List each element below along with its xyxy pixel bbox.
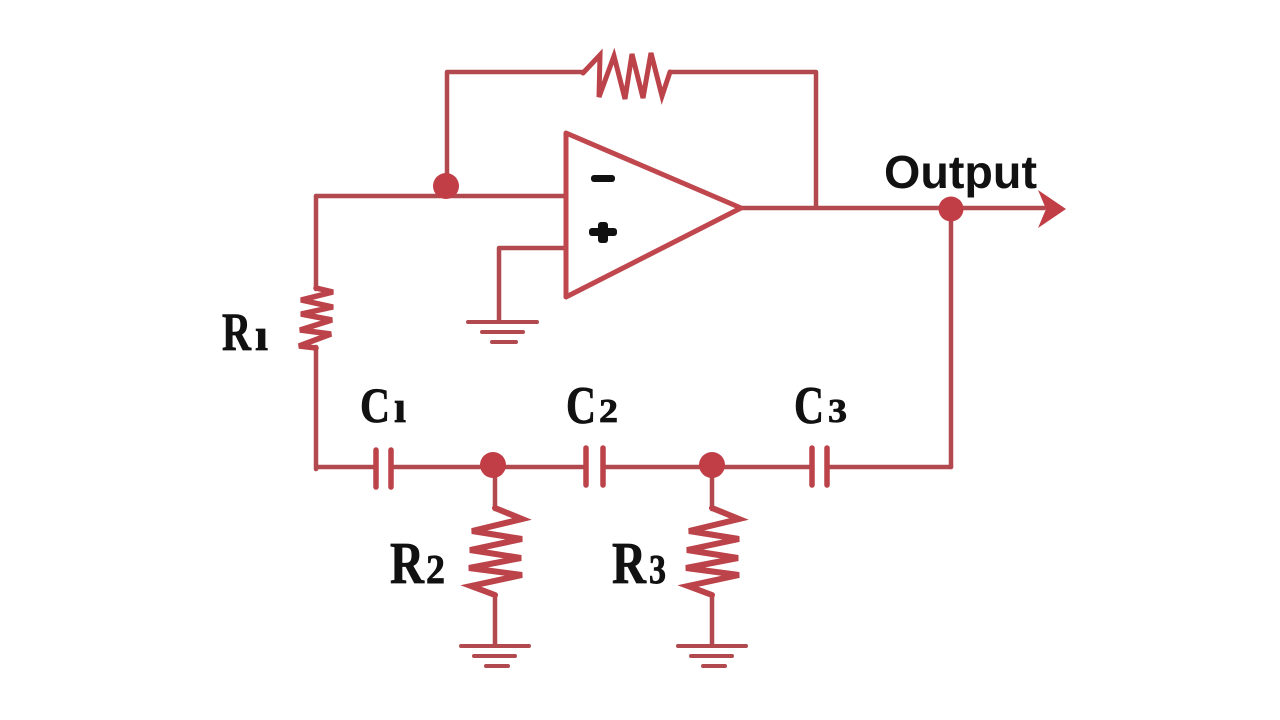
svg-text:ı: ı	[255, 309, 268, 360]
svg-text:R: R	[612, 530, 647, 596]
svg-text:2: 2	[426, 546, 445, 592]
capacitor C1	[376, 450, 391, 487]
label R1	[222, 302, 268, 362]
ground (R2)	[461, 646, 529, 666]
svg-text:3: 3	[649, 546, 666, 592]
node junction (C1-R2)	[480, 452, 506, 478]
wire bottom rail seg3	[604, 465, 810, 470]
wire R1 top stub	[314, 196, 319, 289]
wire output vertical	[949, 209, 954, 467]
node junction (output)	[939, 197, 964, 222]
svg-text:R: R	[390, 530, 425, 596]
resistor feedback (top)	[583, 53, 670, 99]
node junction (feedback / inverting input)	[433, 173, 459, 199]
node junction (C2-R3)	[699, 452, 725, 478]
svg-text:C: C	[360, 377, 390, 433]
capacitor C2	[586, 448, 603, 485]
svg-text:Output: Output	[884, 146, 1037, 198]
resistor R3	[686, 508, 739, 595]
output arrowhead	[1038, 190, 1066, 228]
wire bottom rail seg2	[392, 465, 585, 470]
wire R2 bottom stub	[493, 595, 498, 645]
wire non-inverting input	[499, 248, 566, 321]
wire inverting input	[316, 194, 566, 199]
resistor R2	[469, 508, 522, 595]
wire bottom rail seg4	[829, 465, 951, 470]
svg-text:3: 3	[828, 393, 847, 430]
label R2	[390, 530, 445, 596]
svg-text:C: C	[566, 377, 596, 435]
wire R3 top stub	[710, 467, 715, 509]
wire bottom rail seg1	[317, 465, 374, 470]
label C2	[566, 377, 618, 435]
wire R2 top stub	[493, 467, 498, 509]
wire output horizontal	[741, 206, 1044, 211]
op-amp U1	[566, 133, 741, 297]
label C3	[794, 377, 847, 435]
op-amp plus sign	[589, 222, 617, 243]
svg-text:C: C	[794, 377, 824, 435]
wire R3 bottom stub	[710, 595, 715, 645]
ground (R3)	[678, 646, 746, 666]
svg-text:ı: ı	[394, 382, 406, 432]
resistor R1	[299, 288, 333, 348]
wire R1 bottom stub	[314, 347, 319, 469]
capacitor C3	[812, 448, 827, 485]
svg-text:2: 2	[599, 393, 618, 430]
wire feedback left vertical	[447, 72, 583, 196]
label C1	[360, 377, 406, 433]
op-amp minus sign	[591, 175, 615, 182]
ground (op-amp +)	[468, 322, 537, 342]
label R3	[612, 530, 666, 596]
wire feedback right horizontal	[670, 72, 816, 207]
svg-text:R: R	[222, 302, 252, 362]
